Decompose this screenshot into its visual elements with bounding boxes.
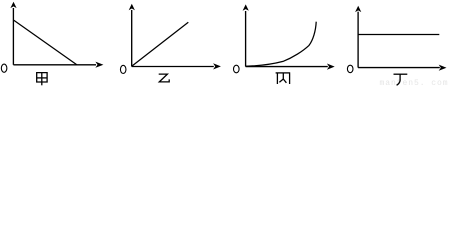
svg-text:manfen5. com: manfen5. com <box>380 79 449 86</box>
